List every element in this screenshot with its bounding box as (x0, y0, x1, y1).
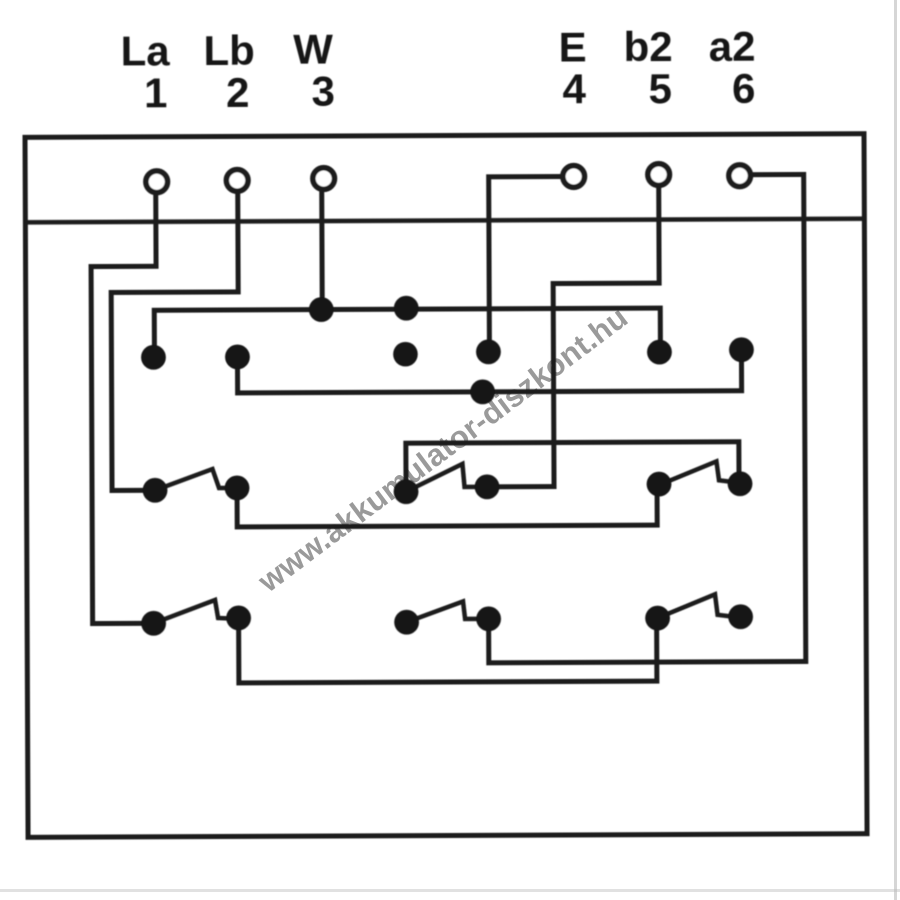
wire row3: S2 left contact up, across, down to S3 right contact (406, 442, 739, 490)
watermark www.akkumulator-diszkont.hu (251, 299, 634, 599)
scan edge artifact right (894, 0, 897, 900)
wire row1 bus: node A up, across, down to node b2row (154, 308, 660, 355)
node S6 left contact (645, 606, 670, 631)
svg-text:www.akkumulator-diszkont.hu: www.akkumulator-diszkont.hu (251, 299, 634, 599)
wire row2 bus: node Lbrow down, across, up to node a2row (237, 352, 741, 393)
outer frame (25, 134, 867, 838)
node row2 lower junction on Lb bus (470, 379, 495, 404)
node S1 left contact (143, 478, 168, 503)
node S4 right contact (226, 605, 251, 630)
wire La terminal to row4 switch S4 left contact (91, 193, 158, 623)
node S2 right contact (475, 474, 500, 499)
node S5 left contact (394, 610, 419, 635)
wire E terminal left and down to node Erow (489, 177, 561, 350)
node S3 left contact (647, 472, 672, 497)
node b2row row2 col5 (647, 340, 672, 365)
svg-text:2: 2 (226, 69, 250, 116)
terminal E pin 4 (563, 166, 585, 188)
svg-text:La: La (121, 27, 171, 74)
wire row3: S1 right contact to S3 left contact (237, 486, 657, 527)
wire row4: S4 right contact to S6 left contact (239, 619, 657, 683)
svg-text:6: 6 (732, 65, 756, 112)
node mid row2 col3 (isolated) (393, 342, 418, 367)
svg-text:a2: a2 (709, 23, 756, 70)
svg-text:E: E (559, 23, 587, 70)
svg-text:1: 1 (144, 69, 168, 116)
node Erow row2 col4 (476, 339, 501, 364)
svg-text:5: 5 (649, 65, 673, 112)
terminal W pin 3 (313, 168, 335, 190)
node S2 left contact (394, 479, 419, 504)
switch S4 arm row4 left (154, 600, 230, 623)
switch S3 arm row3 right (659, 461, 731, 485)
terminal La pin 1 (146, 171, 168, 193)
scan edge artifact bottom (0, 889, 900, 892)
switch S2 arm row3 middle (406, 464, 478, 492)
switch S1 arm row3 left (155, 469, 228, 490)
switch S6 arm row4 right (658, 594, 730, 618)
node S1 right contact (225, 475, 250, 500)
switch S5 arm row4 middle (407, 601, 478, 622)
svg-text:3: 3 (312, 67, 336, 114)
node a2row row2 col6 (729, 337, 754, 362)
svg-text:W: W (293, 26, 333, 73)
node S6 right contact (728, 604, 753, 629)
svg-text:4: 4 (563, 65, 587, 112)
svg-text:Lb: Lb (203, 27, 255, 74)
node A row2 col1 (141, 345, 166, 370)
top rail line (25, 219, 864, 223)
wire Lb terminal to row3 switch S1 left contact (111, 193, 239, 491)
node Lbrow row2 col2 (225, 344, 250, 369)
node row1 junction (394, 296, 419, 321)
terminal a2 pin 6 (729, 165, 751, 187)
wire W terminal drop to node W (319, 191, 325, 309)
terminal Lb pin 2 (226, 170, 248, 192)
node S4 left contact (141, 611, 166, 636)
wire a2 terminal right, down, to row4 switch S5 right contact (487, 174, 806, 662)
svg-text:b2: b2 (624, 23, 673, 70)
node S3 right contact (728, 471, 753, 496)
node W row1 (309, 297, 334, 322)
wire b2 terminal to row3 switch S2 right contact (489, 189, 660, 487)
terminal b2 pin 5 (648, 164, 670, 186)
node S5 right contact (476, 606, 501, 631)
